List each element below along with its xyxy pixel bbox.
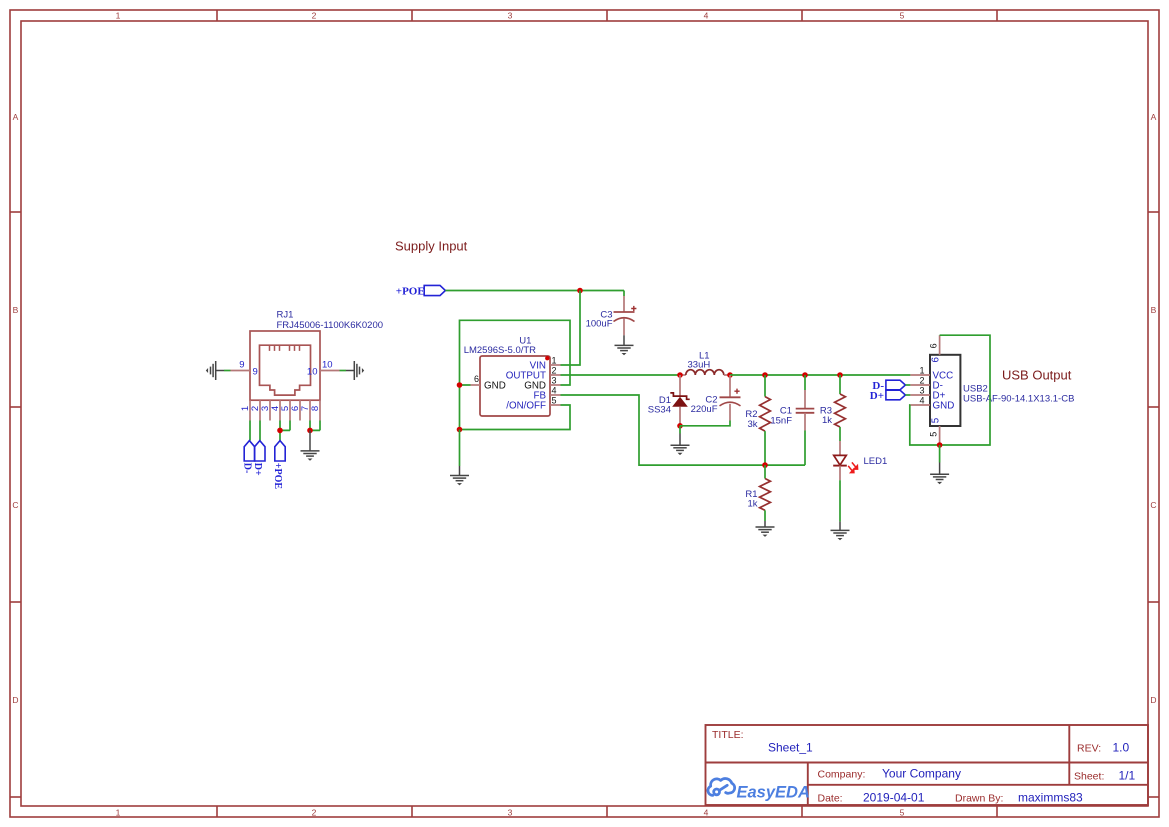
svg-text:D+: D+: [252, 463, 263, 476]
svg-text:+POE: +POE: [396, 286, 425, 298]
netflag D- (USB): [872, 380, 905, 392]
svg-text:D+: D+: [870, 390, 884, 402]
ground U1: [450, 430, 469, 486]
resistor R3 1k: [820, 375, 846, 441]
svg-text:4: 4: [919, 396, 924, 406]
junction: [307, 428, 313, 434]
svg-text:5: 5: [930, 417, 941, 423]
junction: [677, 372, 683, 378]
junction: [802, 372, 808, 378]
shield ground right: [346, 361, 364, 380]
svg-text:220uF: 220uF: [691, 404, 718, 415]
connector RJ1 FRJ45006-1100K6K0200: [250, 310, 383, 401]
wire D1 to C2: [680, 421, 730, 426]
svg-text:1: 1: [116, 11, 121, 21]
svg-text:Drawn By:: Drawn By:: [955, 792, 1003, 804]
resistor R1 1k: [745, 465, 770, 521]
inductor L1 33uH: [680, 351, 730, 376]
connector USB2 USB-AF-90-14.1X13.1-CB: [910, 335, 1074, 445]
ground C3: [615, 335, 634, 355]
svg-text:FRJ45006-1100K6K0200: FRJ45006-1100K6K0200: [277, 320, 384, 331]
svg-text:+POE: +POE: [272, 463, 283, 490]
svg-text:Supply Input: Supply Input: [395, 239, 468, 254]
svg-text:B: B: [13, 305, 19, 315]
ground D1: [671, 426, 690, 455]
wire: [905, 384, 910, 386]
junction: [837, 372, 843, 378]
EasyEDA logo: [708, 779, 735, 796]
svg-text:3k: 3k: [747, 419, 757, 430]
svg-text:2019-04-01: 2019-04-01: [863, 791, 925, 805]
svg-text:A: A: [13, 112, 19, 122]
svg-text:C: C: [12, 500, 18, 510]
svg-text:6: 6: [930, 356, 941, 362]
svg-text:5: 5: [900, 11, 905, 21]
svg-text:GND: GND: [933, 401, 955, 412]
wire: [340, 370, 347, 372]
svg-text:9: 9: [239, 360, 244, 371]
svg-text:D: D: [12, 695, 18, 705]
junction: [762, 372, 768, 378]
LED LED1: [833, 441, 887, 480]
svg-text:LM2596S-5.0/TR: LM2596S-5.0/TR: [464, 345, 536, 356]
svg-text:Your Company: Your Company: [882, 767, 961, 781]
junction: [677, 423, 683, 429]
svg-text:4: 4: [552, 386, 557, 396]
svg-text:TITLE:: TITLE:: [712, 729, 744, 741]
shield ground left: [206, 361, 224, 380]
svg-text:5: 5: [900, 808, 905, 818]
diode D1 SS34: [648, 375, 690, 426]
svg-text:Company:: Company:: [818, 768, 866, 780]
svg-text:3: 3: [919, 386, 924, 396]
wire pins 4-5: [280, 421, 290, 441]
svg-text:6: 6: [929, 343, 939, 348]
svg-text:3: 3: [552, 376, 557, 386]
wire pin1: [249, 421, 251, 441]
capacitor C1 15nF: [770, 375, 814, 465]
svg-text:1.0: 1.0: [1113, 741, 1130, 755]
svg-text:15nF: 15nF: [770, 416, 792, 427]
junction: [762, 462, 768, 468]
wire FB: [561, 395, 806, 465]
svg-text:D-: D-: [242, 463, 253, 474]
svg-text:B: B: [1151, 305, 1157, 315]
junction: [937, 442, 943, 448]
svg-text:10: 10: [307, 367, 318, 378]
svg-text:4: 4: [704, 808, 709, 818]
svg-text:GND: GND: [484, 381, 506, 392]
junction: [457, 427, 463, 433]
wire pins 7-8: [310, 421, 320, 431]
wire U1 /ON/OFF: [460, 405, 571, 430]
netflag D+ (RJ1): [252, 441, 265, 476]
resistor R2 3k: [745, 375, 770, 465]
svg-text:D: D: [1150, 695, 1156, 705]
netflag D+ (USB): [870, 390, 906, 402]
wire to U1 VIN: [561, 291, 581, 366]
svg-text:C: C: [1150, 500, 1156, 510]
svg-text:5: 5: [552, 396, 557, 406]
wire: [224, 370, 231, 372]
title block: [706, 725, 1149, 805]
junction: [727, 372, 733, 378]
wire USB shell loop: [910, 335, 990, 445]
svg-text:LED1: LED1: [864, 456, 888, 467]
svg-text:2: 2: [552, 366, 557, 376]
svg-text:1k: 1k: [822, 415, 832, 426]
svg-text:Sheet:: Sheet:: [1074, 771, 1104, 783]
RJ1 pins 1-8: [240, 400, 321, 420]
svg-text:Sheet_1: Sheet_1: [768, 741, 813, 755]
svg-text:/ON/OFF: /ON/OFF: [506, 401, 546, 412]
svg-text:maximms83: maximms83: [1018, 791, 1083, 805]
junction: [577, 288, 583, 294]
junction: [277, 428, 283, 434]
svg-text:2: 2: [312, 808, 317, 818]
svg-text:1/1: 1/1: [1119, 769, 1136, 783]
wire U1 gnd loop: [460, 320, 571, 429]
wire: [905, 394, 910, 396]
svg-text:1: 1: [116, 808, 121, 818]
svg-text:33uH: 33uH: [688, 360, 711, 371]
RJ1 pin 10: [307, 360, 340, 378]
capacitor C2 220uF: [691, 375, 741, 421]
svg-text:100uF: 100uF: [586, 319, 613, 330]
svg-text:SS34: SS34: [648, 405, 671, 416]
RJ1 pin 9: [231, 360, 258, 378]
junction: [457, 382, 463, 388]
ground LED1: [831, 480, 850, 540]
svg-text:2: 2: [919, 376, 924, 386]
svg-text:REV:: REV:: [1077, 743, 1101, 755]
svg-text:USB Output: USB Output: [1002, 368, 1072, 383]
svg-text:1: 1: [552, 356, 557, 366]
svg-text:1k: 1k: [747, 499, 757, 510]
ground R1: [756, 521, 775, 537]
svg-text:5: 5: [929, 432, 939, 437]
netflag +POE (supply): [396, 285, 446, 297]
svg-text:9: 9: [253, 367, 258, 378]
svg-text:8: 8: [310, 406, 321, 411]
svg-text:A: A: [1151, 112, 1157, 122]
wire +POE rail: [445, 290, 624, 292]
netflag +POE (RJ1): [272, 441, 285, 490]
ground USB: [930, 445, 949, 484]
svg-text:6: 6: [474, 374, 479, 384]
svg-text:3: 3: [508, 808, 513, 818]
wire pin2: [259, 421, 261, 441]
svg-text:EasyEDA: EasyEDA: [737, 784, 810, 802]
svg-text:4: 4: [704, 11, 709, 21]
svg-text:USB-AF-90-14.1X13.1-CB: USB-AF-90-14.1X13.1-CB: [963, 393, 1074, 404]
svg-text:10: 10: [322, 360, 333, 371]
svg-text:Date:: Date:: [818, 792, 843, 804]
IC U1 LM2596S-5.0/TR buck regulator: [464, 336, 561, 417]
ground RJ1 pins 7-8: [301, 430, 320, 460]
svg-text:2: 2: [312, 11, 317, 21]
wire rail after L1: [730, 374, 910, 376]
netflag D- (RJ1): [242, 441, 255, 474]
svg-text:1: 1: [919, 366, 924, 376]
svg-text:3: 3: [508, 11, 513, 21]
capacitor C3 100uF: [586, 291, 637, 336]
wire OUTPUT rail: [561, 374, 681, 376]
svg-text:RJ1: RJ1: [277, 310, 294, 321]
